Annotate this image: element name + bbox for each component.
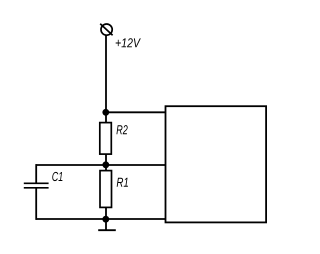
power terminal +12V bbox=[100, 24, 112, 35]
wire: top node to IC block bbox=[105, 111, 166, 113]
wire: C1 bottom lead bbox=[35, 188, 37, 220]
wire: mid node down through R1 to ground node bbox=[105, 165, 107, 219]
label +12V bbox=[116, 38, 141, 47]
label C1 bbox=[52, 172, 62, 181]
ground bbox=[98, 219, 116, 230]
wire: +12V supply down through R2 to mid node bbox=[105, 35, 107, 165]
wire: C1 top lead bbox=[35, 164, 37, 183]
label R1 bbox=[117, 178, 128, 187]
resistor R2 bbox=[100, 123, 112, 155]
IC block bbox=[166, 106, 267, 222]
wire: bottom rail C1 to IC block bbox=[36, 218, 167, 220]
resistor R1 bbox=[100, 171, 112, 208]
junction node: R2 top / IC feed bbox=[102, 109, 109, 116]
wire: mid rail C1 top to IC block bbox=[36, 164, 167, 166]
label R2 bbox=[116, 125, 127, 134]
capacitor C1 bbox=[24, 183, 49, 188]
junction node: R2/R1/C1 mid bbox=[102, 161, 109, 168]
junction node: ground rail bbox=[102, 216, 109, 223]
